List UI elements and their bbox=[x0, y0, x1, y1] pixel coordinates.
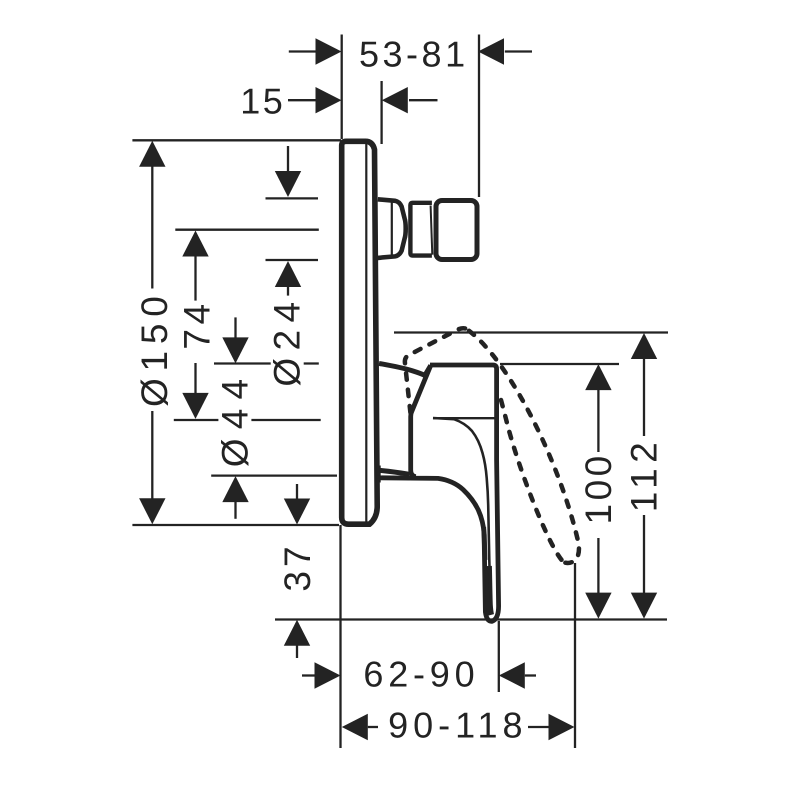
svg-text:37: 37 bbox=[277, 542, 318, 591]
dimension 37 upper arrow bbox=[284, 499, 310, 525]
handle flange rear stub bbox=[377, 466, 381, 483]
dimension D24 line segments bbox=[287, 146, 289, 300]
reference line: sleeve bottom y=260 bbox=[266, 259, 319, 261]
check valve sleeve cone bbox=[378, 199, 406, 258]
dimension D150 top arrow bbox=[139, 141, 165, 167]
handle flange bottom arc bbox=[379, 470, 410, 474]
handle body rear edge and bottom curve into lever bbox=[378, 365, 485, 560]
reference line: sleeve top y=198.4 bbox=[266, 197, 319, 199]
dimension label D24 bbox=[267, 295, 308, 387]
dimension 15 left arrow bbox=[316, 87, 342, 113]
dimension 100 top arrow bbox=[585, 364, 611, 390]
check valve knob bbox=[436, 201, 477, 260]
reference line: cartridge axis y=420 bbox=[174, 419, 321, 421]
dimension D44 lower arrow bbox=[222, 476, 248, 502]
svg-text:Ø44: Ø44 bbox=[214, 370, 255, 468]
lever inner contour curve bbox=[433, 418, 491, 602]
raised lever (dashed) outer edge bbox=[469, 331, 579, 563]
svg-text:90-118: 90-118 bbox=[388, 704, 527, 745]
reference line: lever bottom y=619.5 bbox=[275, 618, 667, 620]
dimension 74 top arrow bbox=[182, 231, 208, 257]
extension line: handle front x=498.8 bbox=[498, 621, 500, 692]
reference line: handle top y=364 bbox=[500, 363, 619, 365]
dimension 100 bottom arrow bbox=[585, 593, 611, 619]
dimension 112 top arrow bbox=[631, 333, 657, 359]
dimension D44 line segments bbox=[234, 317, 236, 518]
dimension D24 upper arrow bbox=[275, 171, 301, 197]
escutcheon plate outline (side view) bbox=[342, 141, 378, 524]
extension line: plate face x=340.5 (bottom) bbox=[339, 525, 341, 748]
handle body top and front edge with lever tip bbox=[430, 365, 499, 621]
extension line: plate face x=341.7 (top) bbox=[341, 35, 343, 140]
reference line: handle flange top y=363.5 bbox=[214, 362, 319, 364]
reference line: plate top edge level y=140 bbox=[132, 139, 341, 141]
dimension 53-81 left arrow bbox=[316, 38, 342, 64]
dimension 100 line segments bbox=[597, 389, 599, 594]
dimension 62-90 left arrow bbox=[315, 662, 341, 688]
dimension 90-118 left arrow bbox=[342, 714, 368, 740]
dimension 62-90 right arrow bbox=[499, 662, 525, 688]
svg-text:74: 74 bbox=[176, 299, 217, 349]
raised lever (dashed) left edge bbox=[405, 328, 469, 412]
dimension D44 upper arrow bbox=[222, 337, 248, 363]
lever lower black band near tip bbox=[488, 566, 490, 615]
reference line: check-valve axis y=229.7 bbox=[175, 229, 318, 231]
svg-text:Ø150: Ø150 bbox=[134, 289, 175, 407]
lever separation line bbox=[433, 417, 496, 419]
extension line: knob front x=479 bbox=[478, 35, 480, 198]
dimension 74 line segments bbox=[194, 256, 196, 395]
dimension 37 lower arrow bbox=[284, 620, 310, 646]
dimension 53-81 tails bbox=[289, 50, 532, 52]
check valve adapter body bbox=[410, 203, 432, 256]
svg-text:Ø24: Ø24 bbox=[267, 295, 308, 387]
dimension D150 bottom arrow bbox=[139, 498, 165, 524]
reference line: handle flange bottom y=475.6 bbox=[211, 474, 337, 476]
dimension 15 tails bbox=[288, 99, 438, 101]
svg-text:15: 15 bbox=[240, 80, 285, 121]
svg-text:53-81: 53-81 bbox=[359, 33, 469, 74]
dimension 90-118 right arrow bbox=[549, 714, 575, 740]
extension line: raised lever tip x=575 bbox=[574, 563, 576, 748]
dimension 74 bottom arrow bbox=[182, 393, 208, 419]
svg-text:62-90: 62-90 bbox=[363, 653, 479, 694]
reference line: plate bottom edge level y=525 bbox=[132, 524, 339, 526]
extension line: plate back x=381.6 bbox=[380, 81, 382, 144]
dimension D150 line segments bbox=[151, 166, 153, 500]
check valve sleeve inner edge bbox=[391, 202, 393, 256]
check valve adapter right face edge bbox=[431, 206, 433, 255]
handle flange top curve bbox=[379, 363, 425, 375]
dimension D24 lower arrow bbox=[275, 261, 301, 287]
dimension 15 right arrow bbox=[382, 87, 408, 113]
reference line: raised lever top y=332.5 bbox=[394, 331, 668, 333]
dimension 53-81 right arrow bbox=[478, 38, 504, 64]
dimension label D44 bbox=[214, 370, 255, 468]
dimension 90-118 tails bbox=[368, 726, 549, 728]
dimension 112 bottom arrow bbox=[631, 593, 657, 619]
raised lever (dashed) inner edge bbox=[501, 400, 564, 562]
dimension 37 line segments bbox=[296, 484, 298, 658]
dimension 62-90 tails bbox=[302, 674, 536, 676]
svg-text:100: 100 bbox=[578, 452, 619, 524]
svg-text:112: 112 bbox=[623, 437, 664, 513]
dimension 112 line segments bbox=[643, 358, 645, 594]
escutcheon plate face edge line bbox=[365, 144, 367, 522]
